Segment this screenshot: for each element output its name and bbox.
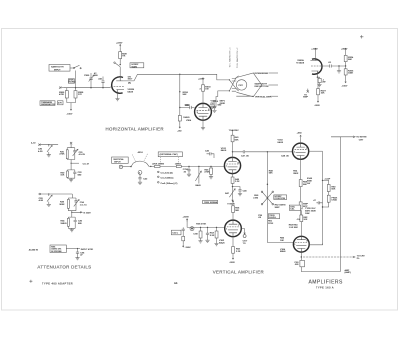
svg-text:4X10: 4X10 xyxy=(138,152,144,154)
V152 label xyxy=(221,148,227,152)
rotary switch labels xyxy=(253,195,259,199)
svg-text:47K: 47K xyxy=(58,103,62,105)
plate wire V153 xyxy=(297,132,303,143)
node junction to divider xyxy=(179,74,180,75)
resistor R323 xyxy=(344,66,354,80)
label line xyxy=(179,91,189,96)
series resistor R44 xyxy=(176,165,181,167)
att1 mid bus xyxy=(67,160,90,170)
cathode path V164 xyxy=(301,252,302,260)
svg-text:6AU8: 6AU8 xyxy=(128,90,134,93)
cap C26 xyxy=(258,214,280,219)
pot C33 xyxy=(39,194,53,207)
svg-text:470K: 470K xyxy=(204,172,210,174)
resistor R54 xyxy=(293,170,308,202)
plate wire up from V302B xyxy=(119,67,121,77)
V153 output right xyxy=(309,150,323,152)
node bias2 xyxy=(207,227,208,228)
sawtooth deflection label xyxy=(255,82,279,87)
plate resistor R41 xyxy=(231,133,239,142)
corner intensity xyxy=(331,136,341,138)
svg-text:(AMP): (AMP) xyxy=(345,271,351,274)
svg-text:56K: 56K xyxy=(235,210,239,212)
bias wire xyxy=(187,226,225,228)
V304 label xyxy=(185,105,192,122)
svg-text:CRT: CRT xyxy=(359,140,364,142)
selector contact rows xyxy=(158,171,178,185)
sawtooth input box xyxy=(49,65,70,72)
svg-text:Ad.: Ad. xyxy=(174,281,178,285)
rotated labels sawtooth leads xyxy=(228,47,239,68)
node coupling column xyxy=(267,151,268,152)
resistor R26 xyxy=(210,227,219,245)
polarized cap xyxy=(190,227,194,231)
svg-text:56K: 56K xyxy=(331,189,335,191)
svg-text:TO INTEN: TO INTEN xyxy=(356,137,367,139)
svg-text:27K: 27K xyxy=(121,56,125,58)
plate resistor above V304 xyxy=(202,81,212,104)
svg-text:10K: 10K xyxy=(280,240,284,242)
svg-text:6AQ5: 6AQ5 xyxy=(219,241,225,244)
svg-text:V GAIN: V GAIN xyxy=(227,202,235,205)
node main1 xyxy=(150,166,151,167)
svg-text:SWP: SWP xyxy=(275,207,281,209)
att2 mid bus with output xyxy=(68,211,91,217)
grid label xyxy=(268,220,274,224)
att3 ground xyxy=(75,258,79,260)
grid resistor R45 xyxy=(204,166,213,179)
svg-text:1.5-7.5: 1.5-7.5 xyxy=(80,205,88,207)
svg-text:TO L. SAWTOOTH +C: TO L. SAWTOOTH +C xyxy=(228,47,231,68)
svg-text:TO +225V: TO +225V xyxy=(229,130,240,132)
svg-text:PL.: PL. xyxy=(357,258,361,260)
+225V supply top xyxy=(116,43,123,48)
svg-text:V302A: V302A xyxy=(297,59,304,62)
lower plate feed wire from V304 xyxy=(210,91,230,107)
svg-text:1000: 1000 xyxy=(185,105,191,107)
plate wire +225V xyxy=(311,48,318,58)
divider wire down xyxy=(179,74,181,115)
column labels xyxy=(269,170,274,174)
supply riser xyxy=(341,48,348,55)
resistor R303 xyxy=(74,88,84,103)
V164 labels xyxy=(289,224,299,228)
amp label at corner xyxy=(345,269,351,274)
cathode chain V162 xyxy=(232,237,241,257)
output wire with cap C320 xyxy=(321,62,345,68)
grid resistor R53 xyxy=(0,0,1,1)
svg-text:1.5K 56K: 1.5K 56K xyxy=(289,227,299,229)
CRT upper deflection plates xyxy=(232,78,237,81)
node att2 xyxy=(48,193,49,194)
svg-text:+225V: +225V xyxy=(183,217,190,219)
node peak bottom xyxy=(322,206,323,207)
series resistor R40 xyxy=(152,163,164,167)
wire att3 xyxy=(66,248,93,251)
svg-text:VERTICAL AMPLIFIER: VERTICAL AMPLIFIER xyxy=(213,269,264,274)
svg-text:470K 1MEG: 470K 1MEG xyxy=(152,163,164,165)
svg-text:470K: 470K xyxy=(59,154,65,156)
page mark plus xyxy=(360,35,363,38)
svg-text:A1460 IN: A1460 IN xyxy=(29,248,39,251)
output terminal V162 xyxy=(241,229,248,245)
svg-text:-150V: -150V xyxy=(67,114,73,116)
svg-text:10K: 10K xyxy=(321,93,325,95)
plate resistor R56 xyxy=(232,201,240,221)
vertical deflection lead xyxy=(236,95,278,98)
trig signal box xyxy=(203,200,219,204)
C32 capacitor xyxy=(73,170,82,178)
cathode cap C321 xyxy=(317,78,326,86)
svg-text:+225V: +225V xyxy=(116,43,123,45)
attenuator 1 input wire xyxy=(39,144,58,146)
svg-text:330K: 330K xyxy=(293,173,299,175)
svg-text:Cm-4 (X) (0): Cm-4 (X) (0) xyxy=(161,172,173,174)
riser wire A xyxy=(322,151,324,245)
svg-text:3.3K: 3.3K xyxy=(210,235,215,237)
svg-text:(B): (B) xyxy=(128,83,131,85)
svg-text:6AU6: 6AU6 xyxy=(278,141,284,144)
labels type xyxy=(305,208,316,215)
svg-text:6AU6: 6AU6 xyxy=(221,149,227,152)
svg-text:Cm3 (150mv) (C): Cm3 (150mv) (C) xyxy=(161,183,178,185)
svg-text:470K: 470K xyxy=(59,94,65,96)
-150V below cathode xyxy=(314,99,320,106)
cap C60 xyxy=(313,200,322,204)
svg-text:DEFLECTION: DEFLECTION xyxy=(255,86,269,88)
selector dashes xyxy=(132,152,148,162)
svg-text:10K: 10K xyxy=(303,219,307,221)
intensity line to CRT xyxy=(331,136,367,142)
svg-text:LEAD: LEAD xyxy=(331,199,337,202)
tube V153 pentode xyxy=(293,143,309,159)
resistor R304 plate load xyxy=(119,47,128,64)
node bias1 xyxy=(200,227,201,228)
-150V label xyxy=(67,108,73,116)
V162 label xyxy=(219,240,225,244)
cathode box C50 xyxy=(294,260,304,266)
feedback loop wire xyxy=(301,267,340,272)
input coupling cap C45 xyxy=(205,150,214,158)
riser wire B xyxy=(340,137,342,272)
svg-text:4.5-25: 4.5-25 xyxy=(79,154,86,156)
+225V feed xyxy=(183,217,190,228)
dotted line to CRT xyxy=(303,256,365,261)
svg-text:1MEG: 1MEG xyxy=(175,163,181,165)
column wire xyxy=(267,152,269,212)
svg-text:+350: +350 xyxy=(297,132,303,134)
svg-text:GENERATOR: GENERATOR xyxy=(41,103,55,106)
resistor R317 xyxy=(178,116,189,126)
gain pot V152 cathode xyxy=(225,187,235,199)
svg-text:TYPE 160 A: TYPE 160 A xyxy=(316,286,334,289)
node plate junction xyxy=(120,64,121,65)
coax connector xyxy=(119,165,122,168)
CRT lower deflection plates xyxy=(232,89,237,92)
svg-text:C47 .05: C47 .05 xyxy=(241,155,249,157)
CRT grid labels bottom xyxy=(210,101,225,109)
svg-text:100K: 100K xyxy=(348,73,354,75)
svg-text:HORIZ: HORIZ xyxy=(69,82,76,84)
shunt cap C44 xyxy=(183,166,191,177)
svg-text:2.5M: 2.5M xyxy=(253,198,258,200)
att2 ground xyxy=(68,228,75,232)
svg-text:15K: 15K xyxy=(60,175,64,177)
svg-text:56K: 56K xyxy=(269,173,273,175)
svg-text:2.2K: 2.2K xyxy=(235,181,240,183)
cathode ground V302B xyxy=(115,93,119,101)
svg-text:56K: 56K xyxy=(348,59,352,61)
-150V bottom right chain xyxy=(342,80,348,87)
att1 ground xyxy=(67,178,74,182)
svg-text:4-30: 4-30 xyxy=(39,200,44,202)
C36 capacitor xyxy=(76,249,85,258)
tube V304 pentode xyxy=(195,103,212,120)
R32 resistor xyxy=(60,170,74,178)
svg-text:C48 .05: C48 .05 xyxy=(281,156,289,158)
svg-text:Cm-2 (300m): Cm-2 (300m) xyxy=(161,177,174,179)
-150V below V153 xyxy=(296,214,301,221)
cap C24 xyxy=(205,227,209,242)
svg-text:AMPLIFIERS: AMPLIFIERS xyxy=(309,279,343,285)
svg-text:C305: C305 xyxy=(84,75,90,77)
cathode bypass branch xyxy=(233,187,248,196)
svg-text:NOT: NOT xyxy=(128,79,133,81)
ground stub on output xyxy=(337,65,341,73)
svg-text:POSITION: POSITION xyxy=(275,198,286,200)
coupling wire V152 to V153 xyxy=(233,150,293,157)
node grid junction xyxy=(75,87,76,88)
svg-text:IN PROBE: IN PROBE xyxy=(51,251,62,253)
svg-text:1MEG: 1MEG xyxy=(183,117,189,119)
terminal arrow att1 xyxy=(70,142,72,148)
resistor R55 xyxy=(299,202,308,214)
svg-text:-150: -150 xyxy=(177,130,182,132)
horiz gain box xyxy=(130,63,144,69)
svg-text:5.6K: 5.6K xyxy=(193,234,198,236)
tube V302B triode xyxy=(111,76,124,93)
terminal strip box xyxy=(40,101,55,106)
-150V bottom of divider xyxy=(177,125,182,132)
grid wire xyxy=(268,211,294,242)
svg-text:GRID: GRID xyxy=(220,103,226,105)
peaking branch xyxy=(323,177,331,184)
svg-text:SWP: SWP xyxy=(303,97,309,99)
cathode chain V302A xyxy=(317,74,320,78)
svg-text:LEVEL: LEVEL xyxy=(269,217,277,219)
wire join resistors to -150V xyxy=(67,103,76,108)
plate output wire to CRT xyxy=(124,74,230,81)
svg-text:4-10: 4-10 xyxy=(31,143,36,145)
svg-text:+225V: +225V xyxy=(311,49,318,51)
resistor R24 xyxy=(193,227,202,243)
CRT envelope funnel xyxy=(236,73,261,97)
resistor R60 xyxy=(327,185,336,196)
svg-text:2.2K: 2.2K xyxy=(236,251,241,253)
gain pot xyxy=(195,166,201,187)
main wire to amplifier xyxy=(149,165,225,167)
tube internal note xyxy=(128,83,131,85)
NC contact below hump xyxy=(138,171,148,185)
-150V below V152 pot xyxy=(227,198,235,205)
svg-text:CRT: CRT xyxy=(238,85,243,87)
V302A label xyxy=(296,59,305,65)
resistor R21 xyxy=(182,236,191,249)
svg-text:VERTICAL DEFL: VERTICAL DEFL xyxy=(255,95,273,98)
tube V302A triode xyxy=(310,58,322,75)
svg-text:GAIN: GAIN xyxy=(195,184,201,187)
svg-text:ATTENUATOR DETAILS: ATTENUATOR DETAILS xyxy=(37,264,91,269)
attenuator 3 box xyxy=(50,245,66,253)
svg-text:INPUT: INPUT xyxy=(54,69,61,71)
svg-text:300K: 300K xyxy=(59,204,65,206)
svg-text:-150V: -150V xyxy=(229,262,235,264)
plate riser V164 xyxy=(300,210,308,235)
svg-text:-150V: -150V xyxy=(342,85,348,87)
svg-text:-150V: -150V xyxy=(185,247,191,249)
R31 resistor xyxy=(59,148,74,160)
coupling cap C310 xyxy=(180,105,195,109)
C20 boxed label xyxy=(171,230,181,235)
tube V162 pentode xyxy=(225,220,242,237)
svg-text:+225V: +225V xyxy=(198,79,205,81)
svg-text:SAWTOOTH: SAWTOOTH xyxy=(51,66,64,69)
dashed drops from external box xyxy=(161,157,179,164)
text below box xyxy=(275,205,286,209)
svg-text:56K: 56K xyxy=(183,94,187,96)
plus mark xyxy=(29,280,32,283)
+225V above R318 xyxy=(198,78,205,91)
svg-text:TO: TO xyxy=(243,243,246,245)
capacitor C303 xyxy=(98,77,105,89)
node cathode junction xyxy=(232,186,233,187)
svg-text:GAIN: GAIN xyxy=(132,65,138,68)
svg-text:270K: 270K xyxy=(268,223,274,225)
svg-text:INTENSIFIER: INTENSIFIER xyxy=(255,73,269,75)
resistor R302 xyxy=(59,88,68,103)
svg-text:-150V: -150V xyxy=(314,105,320,107)
terminal arrow left xyxy=(59,86,64,88)
wire grid bus xyxy=(64,87,111,89)
input wire xyxy=(123,166,131,168)
R34 resistor xyxy=(60,217,75,228)
V153 label xyxy=(278,140,284,144)
rotary switch X xyxy=(261,191,273,205)
bias label xyxy=(196,223,206,225)
tube V152 pentode xyxy=(224,157,240,173)
variable cap C302 xyxy=(84,73,98,88)
node output xyxy=(345,65,346,66)
cap C20 xyxy=(182,227,185,236)
svg-text:C20 x: C20 x xyxy=(172,233,179,235)
node bias3 xyxy=(216,227,217,228)
switch SW301 xyxy=(73,65,81,69)
horiz positioning box xyxy=(274,195,287,200)
terminal strip small box xyxy=(58,101,64,105)
small boxed label OSC xyxy=(289,205,300,211)
wire from input box to switch xyxy=(70,67,74,69)
svg-text:INPUT 470K: INPUT 470K xyxy=(81,249,94,251)
C31 variable cap xyxy=(73,148,86,160)
svg-text:TYPE 460 ADAPTER: TYPE 460 ADAPTER xyxy=(42,282,73,285)
external dashed box xyxy=(158,152,182,157)
cathode ground V304 xyxy=(201,120,205,130)
svg-text:INPUT: INPUT xyxy=(114,161,121,163)
grid cap to ground C311 xyxy=(210,101,222,112)
svg-text:56K: 56K xyxy=(235,139,239,141)
svg-text:+350V: +350V xyxy=(341,49,348,51)
switch to horiz gain xyxy=(114,62,120,67)
-150V below V162 xyxy=(229,256,235,263)
plate riser V152 xyxy=(232,142,233,158)
node column xyxy=(267,184,268,185)
svg-text:+CAP: +CAP xyxy=(324,177,330,180)
output wire V164 right xyxy=(309,244,322,245)
svg-text:4-30: 4-30 xyxy=(38,151,43,153)
svg-text:(EXTERNAL CAP): (EXTERNAL CAP) xyxy=(160,153,178,156)
svg-text:27K: 27K xyxy=(78,94,82,96)
resistor R322 xyxy=(344,55,354,66)
C34 variable cap xyxy=(74,198,88,211)
R33 resistor xyxy=(59,194,76,211)
resistor R301 xyxy=(68,79,76,84)
tube label V302B xyxy=(128,77,135,94)
svg-text:B 150V: B 150V xyxy=(84,213,92,215)
svg-text:TRIG SIGNAL: TRIG SIGNAL xyxy=(204,201,219,204)
tube V164 pentode xyxy=(293,236,309,253)
pot R30 xyxy=(38,145,52,157)
svg-text:TO R. SAWTOOTH +C: TO R. SAWTOOTH +C xyxy=(236,47,239,68)
attenuator 2 input terminal xyxy=(39,193,72,195)
C35 capacitor xyxy=(74,217,83,228)
node peak top xyxy=(322,180,323,181)
svg-text:1MEG: 1MEG xyxy=(60,223,66,225)
+225V above R41 xyxy=(229,130,240,133)
svg-text:6BH6: 6BH6 xyxy=(280,251,286,253)
labels left of riser A xyxy=(307,178,313,185)
cathode chain V152 xyxy=(231,174,240,187)
cathode chain V153 xyxy=(300,159,302,179)
intensifier lead xyxy=(253,73,278,75)
attenuator hump xyxy=(130,161,149,167)
vertical input box xyxy=(112,157,129,163)
wire switch down to grid bus xyxy=(75,71,77,88)
svg-text:Cm 47: Cm 47 xyxy=(83,164,90,166)
svg-text:CRT: CRT xyxy=(211,103,216,105)
node att1 xyxy=(48,144,49,145)
svg-text:HORIZONTAL AMPLIFIER: HORIZONTAL AMPLIFIER xyxy=(106,127,164,132)
crossover wires X xyxy=(229,76,239,92)
terminal to sweep xyxy=(303,89,309,99)
svg-text:R26 270K: R26 270K xyxy=(196,223,206,225)
peaking coil L60 xyxy=(323,195,338,207)
svg-text:V304: V304 xyxy=(186,120,192,122)
cathode resistor R326 xyxy=(317,77,327,99)
